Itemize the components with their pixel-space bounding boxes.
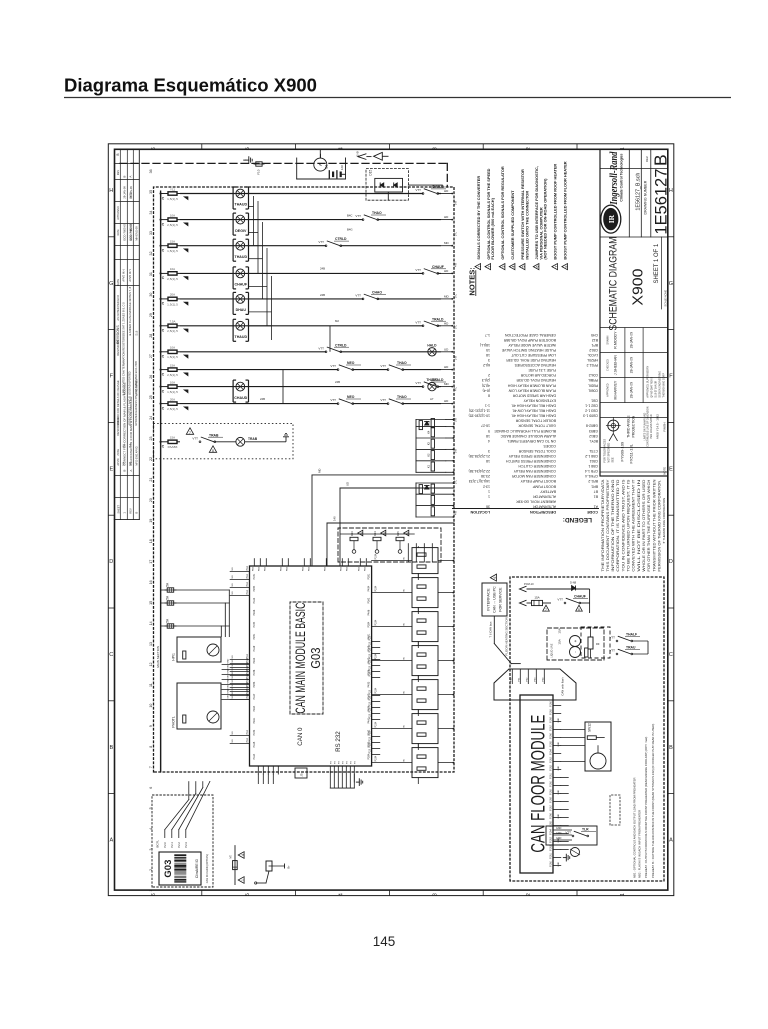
svg-text:D: D: [669, 559, 673, 565]
svg-text:36: 36: [149, 169, 153, 173]
jumper wires in resistor box: [340, 533, 414, 535]
svg-text:28: 28: [149, 334, 153, 338]
lamp TRAB in sub-box: [215, 441, 237, 443]
svg-text:P1A7: P1A7: [550, 804, 553, 810]
zone tick left: [108, 421, 114, 423]
aux feed wire near climate box: [234, 846, 236, 885]
svg-text:1-7: 1-7: [485, 333, 490, 337]
relay coil K6 resistor: [431, 507, 434, 516]
triangle note in resistor box 3: [404, 530, 409, 536]
svg-text:20A: 20A: [170, 397, 175, 401]
svg-text:DASH REL RELAY-HIGH 40.: DASH REL RELAY-HIGH 40.: [511, 404, 556, 408]
svg-text:P1A2: P1A2: [550, 844, 553, 850]
svg-text:THAO: THAO: [372, 211, 382, 215]
svg-text:DATE: DATE: [117, 229, 120, 236]
svg-text:7,5A: 7,5A: [170, 320, 176, 324]
svg-text:28-JAN-09: 28-JAN-09: [629, 332, 633, 348]
svg-text:B1: B1: [324, 164, 328, 168]
floor feed arrow 2: [520, 600, 527, 606]
svg-text:P1A0: P1A0: [550, 860, 553, 866]
svg-text:FX511-13L: FX511-13L: [628, 443, 633, 463]
svg-text:P1A7: P1A7: [550, 724, 553, 730]
svg-text:BR1: BR1: [591, 484, 598, 488]
svg-text:P2-1: P2-1: [170, 842, 174, 848]
zone tick right: [668, 236, 674, 238]
svg-text:R9: R9: [596, 642, 600, 646]
svg-text:VTT: VTT: [557, 598, 563, 602]
svg-text:NEO: NEO: [347, 361, 355, 365]
third angle projection symbol: [608, 420, 619, 431]
svg-text:VTT: VTT: [380, 364, 386, 368]
svg-text:10-1(2(30-35): 10-1(2(30-35): [469, 414, 490, 418]
indicator circle R15: [398, 550, 402, 554]
svg-text:AMBIENT ROVL GD-93R: AMBIENT ROVL GD-93R: [516, 499, 556, 503]
main power rail wire: [160, 194, 162, 773]
floor fuse F31: [532, 600, 543, 605]
svg-text:1: 1: [620, 893, 626, 896]
svg-text:COOL TOTAL SENSOR: COOL TOTAL SENSOR: [518, 449, 556, 453]
HPI1 lamp circle: [207, 644, 219, 656]
svg-text:P1A0: P1A0: [550, 780, 553, 786]
fuse on ladder2 top rung: [419, 485, 422, 494]
svg-text:P2A2: P2A2: [253, 657, 256, 664]
relay contact THAO row 8: [388, 368, 403, 370]
svg-text:K2: K2: [426, 453, 430, 457]
svg-text:INTERFACE: INTERFACE: [485, 588, 490, 611]
svg-text:CB8 1-2: CB8 1-2: [585, 454, 598, 458]
svg-text:CAN ↔ USB PC: CAN ↔ USB PC: [492, 586, 496, 613]
svg-text:CONDENSER CLUTCH: CONDENSER CLUTCH: [518, 464, 556, 468]
module bottom edge pins: [372, 754, 380, 756]
ladder2 rung K9: [416, 482, 454, 484]
svg-text:BOOSTER PUMP ROVL GB-98R: BOOSTER PUMP ROVL GB-98R: [503, 338, 556, 342]
svg-text:18: 18: [486, 353, 490, 357]
svg-text:PR11.2: PR11.2: [587, 363, 598, 367]
svg-text:REVISIONS: REVISIONS: [116, 340, 120, 355]
svg-text:P2B1: P2B1: [253, 633, 256, 640]
battery wire: [341, 173, 346, 175]
sensor box HPI1: [177, 637, 221, 662]
interface CAN bus wire: [493, 616, 495, 644]
svg-text:ON TO CAN DRIVER'S PANEL: ON TO CAN DRIVER'S PANEL: [507, 439, 556, 443]
svg-text:12: 12: [149, 663, 153, 667]
wire row 3 after fuse: [180, 245, 441, 247]
zone tick right: [668, 700, 674, 702]
warning triangle 4 near climate box: [238, 852, 244, 859]
svg-text:4: 4: [339, 893, 345, 896]
ladder2 rung K7: [416, 505, 454, 507]
svg-text:P1A9: P1A9: [550, 708, 553, 714]
relay contact CHAUF row 4: [423, 272, 438, 274]
diode on ladder2 rung: [425, 485, 429, 489]
wedge mark row 10: [184, 407, 188, 410]
svg-text:16-27: 16-27: [481, 424, 490, 428]
zone tick top: [201, 144, 203, 150]
indicator lamp DEGIV row 2: [236, 215, 245, 224]
svg-text:CTRLD: CTRLD: [335, 237, 347, 241]
floor relay contact TRAU: [616, 653, 618, 655]
svg-text:23-38: 23-38: [481, 474, 490, 478]
note 2 warning triangle: [485, 264, 491, 270]
svg-text:TO BE RETURNED UPON REQUEST. I: TO BE RETURNED UPON REQUEST. IT IS: [627, 478, 631, 571]
resistor R13: [350, 537, 358, 540]
svg-text:10: 10: [149, 704, 153, 708]
svg-text:DASH AIR SPEED MOTOR: DASH AIR SPEED MOTOR: [512, 393, 556, 397]
svg-text:SIG: SIG: [232, 583, 234, 587]
svg-text:CTRLD: CTRLD: [335, 343, 347, 347]
zone tick top: [482, 144, 484, 150]
floor triangles: [543, 605, 550, 611]
svg-text:UPDATED HARNESS PIN-OUT TABLE: UPDATED HARNESS PIN-OUT TABLE PER ECO-76…: [134, 361, 138, 426]
svg-text:ADDED NOTES 7 AND 8, LEGEND UP: ADDED NOTES 7 AND 8, LEGEND UPDATED: [127, 371, 131, 425]
svg-text:21-2(2(28-28): 21-2(2(28-28): [469, 454, 490, 458]
svg-text:P4A1: P4A1: [367, 717, 370, 724]
floor sensor dashed box: [547, 628, 604, 660]
svg-text:2: 2: [526, 893, 532, 896]
svg-text:GND: GND: [558, 766, 560, 771]
svg-text:SHEET 1 OF 1: SHEET 1 OF 1: [654, 243, 660, 284]
fuse F14 10A row 4: [166, 272, 168, 274]
svg-text:P4B3: P4B3: [367, 681, 370, 688]
warning triangle 1 near climate box: [238, 877, 244, 884]
svg-text:1,5(1),5: 1,5(1),5: [167, 302, 178, 306]
svg-text:P1A: P1A: [246, 566, 249, 571]
HPI1 resistor: [183, 651, 186, 659]
sensor feed drop 2 with fuse: [161, 602, 230, 604]
floor aux dotted box: [610, 795, 620, 825]
svg-text:P1B4: P1B4: [253, 621, 256, 628]
svg-text:CONDENSER SPEED RELAY: CONDENSER SPEED RELAY: [508, 454, 556, 458]
alternator A1 circle: [314, 158, 327, 171]
chassis ground near battery rail: [246, 159, 249, 161]
svg-text:CHAUF: CHAUF: [432, 265, 444, 269]
svg-text:BP1: BP1: [591, 343, 598, 347]
svg-text:& RELOCATED CAN TERMINATION RE: & RELOCATED CAN TERMINATION RESISTORS: [122, 335, 126, 396]
zone tick left: [108, 329, 114, 331]
svg-text:20A: 20A: [170, 293, 175, 297]
approvals divider: [624, 328, 626, 403]
svg-text:VTT: VTT: [330, 364, 336, 368]
svg-text:A: A: [129, 470, 133, 472]
wedge mark row 4: [184, 277, 188, 280]
RS232 ground: [356, 781, 359, 783]
PHOTL resistor: [183, 715, 186, 723]
svg-text:REV: REV: [128, 508, 132, 514]
svg-text:15A: 15A: [557, 639, 561, 644]
svg-text:25: 25: [149, 395, 153, 399]
svg-text:CAN MAIN MODULE BASIC: CAN MAIN MODULE BASIC: [293, 602, 308, 713]
svg-text:B4G: B4G: [347, 228, 353, 232]
svg-text:GND: GND: [558, 862, 560, 867]
svg-text:NOTES:: NOTES:: [467, 267, 476, 295]
floor T-sensor circle: [571, 848, 580, 857]
svg-text:GB93: GB93: [589, 429, 598, 433]
svg-text:AS NOTED PER ECO: AS NOTED PER ECO: [116, 295, 120, 321]
svg-text:26: 26: [149, 375, 153, 379]
svg-text:J.SHEEHAN: J.SHEEHAN: [613, 355, 617, 376]
svg-text:10A: 10A: [170, 380, 175, 384]
svg-text:G03: G03: [163, 860, 174, 878]
svg-text:GB02-8: GB02-8: [586, 424, 598, 428]
svg-text:P3B4: P3B4: [367, 753, 370, 760]
resistor R15: [396, 537, 404, 540]
svg-text:2,5(1),5: 2,5(1),5: [167, 329, 178, 333]
svg-text:FORCED AIR MOTOR: FORCED AIR MOTOR: [520, 373, 556, 377]
svg-text:WATER VALVE MODE RELAY: WATER VALVE MODE RELAY: [508, 343, 556, 347]
zone tick left: [108, 514, 114, 516]
svg-text:SIG: SIG: [227, 665, 229, 669]
wedge mark row 1: [184, 197, 188, 200]
svg-text:GND: GND: [227, 658, 229, 663]
wire row 9 horizontal run: [160, 386, 162, 388]
svg-text:P1B: P1B: [368, 749, 371, 754]
svg-text:P2B3: P2B3: [253, 681, 256, 688]
svg-text:VTT: VTT: [355, 293, 361, 297]
svg-text:VTT: VTT: [415, 268, 421, 272]
row 2 end stub: [441, 219, 452, 221]
svg-text:28-JAN-09: 28-JAN-09: [629, 357, 633, 373]
svg-text:P1B: P1B: [252, 566, 254, 571]
wire row 4 after fuse: [180, 272, 441, 274]
svg-text:P1B1: P1B1: [253, 573, 256, 580]
svg-text:5: 5: [245, 147, 251, 150]
fuse F12 10A row 2: [166, 219, 168, 221]
floor feed wire 1: [527, 588, 590, 590]
svg-text:8: 8: [578, 608, 580, 612]
svg-text:SHEET: SHEET: [116, 505, 120, 514]
svg-text:GB12: GB12: [589, 434, 598, 438]
svg-text:CHECKED: CHECKED: [606, 359, 609, 371]
svg-text:7: 7: [189, 431, 191, 435]
svg-text:P1A: P1A: [246, 654, 249, 659]
relay coil K3 resistor: [431, 439, 434, 448]
svg-text:VTT: VTT: [318, 240, 324, 244]
wire row 7 horizontal run: [160, 351, 162, 353]
svg-text:PROJECTION: PROJECTION: [631, 415, 635, 437]
svg-text:DATE: DATE: [116, 279, 120, 286]
ladder2 rung K8: [416, 493, 454, 495]
svg-text:15A: 15A: [170, 363, 175, 367]
svg-text:28-JAN-09: 28-JAN-09: [629, 382, 633, 398]
svg-text:HR20L: HR20L: [587, 358, 598, 362]
svg-text:P1A6: P1A6: [550, 812, 553, 818]
svg-text:1,5(1),5: 1,5(1),5: [167, 355, 178, 359]
svg-text:TRANSMITTED WITHOUT THE PRIOR: TRANSMITTED WITHOUT THE PRIOR WRITTEN: [652, 479, 656, 572]
svg-text:10A: 10A: [170, 267, 175, 271]
svg-text:APPROVED: APPROVED: [117, 206, 120, 220]
svg-text:FY909-109: FY909-109: [619, 441, 624, 462]
svg-text:THAO: THAO: [397, 395, 407, 399]
svg-text:CAN with flash: CAN with flash: [560, 677, 564, 696]
svg-text:FINISH: FINISH: [662, 422, 666, 431]
svg-text:CB12: CB12: [589, 348, 598, 352]
svg-text:SIG: SIG: [232, 591, 234, 595]
relay contact CHAUF row 1: [423, 192, 438, 194]
svg-text:C0BIL: C0BIL: [588, 388, 598, 392]
IR roundel logo: [601, 205, 621, 233]
svg-text:16(L3)(7.2(33: 16(L3)(7.2(33: [469, 479, 490, 483]
svg-text:P1A6: P1A6: [550, 732, 553, 738]
fuse on ladder top rung: [419, 421, 422, 430]
floor diode D-N8: [572, 586, 576, 591]
svg-text:P4A2: P4A2: [367, 657, 370, 664]
wire row 7 after fuse: [180, 351, 441, 353]
svg-text:MD: MD: [317, 469, 321, 473]
svg-text:2: 2: [487, 266, 491, 268]
svg-text:+: +: [573, 639, 578, 642]
svg-text:P4B4: P4B4: [367, 705, 370, 712]
svg-text:P2A1: P2A1: [253, 717, 256, 724]
row 5 end stub: [441, 298, 452, 300]
legend table (rotated 180): [452, 333, 599, 523]
svg-text:CUSTOMER SUPPLIED COMPONENT: CUSTOMER SUPPLIED COMPONENT: [510, 190, 515, 260]
svg-text:6: 6: [151, 893, 157, 896]
svg-text:P1A8: P1A8: [550, 716, 553, 722]
svg-text:10A: 10A: [170, 213, 175, 217]
floor sensor circle 1: [570, 636, 581, 647]
svg-text:P1B6: P1B6: [253, 669, 256, 676]
svg-text:FLOOR HEATING SECTION: FLOOR HEATING SECTION: [504, 617, 508, 655]
svg-text:SIG: SIG: [227, 695, 229, 699]
svg-text:4: 4: [488, 439, 490, 443]
svg-text:B: B: [651, 154, 671, 166]
svg-text:C0IL2: C0IL2: [589, 373, 598, 377]
svg-text:31: 31: [149, 272, 153, 276]
svg-text:P1B2: P1B2: [253, 729, 256, 736]
floor module harness chamfer: [494, 669, 576, 700]
interface converter box: [482, 583, 507, 616]
floor GND relay contact: [572, 835, 574, 837]
svg-text:THAUD: THAUD: [235, 255, 248, 259]
vertical jog x330 rows 6-7: [329, 326, 331, 352]
svg-text:CHAUD: CHAUD: [234, 396, 247, 400]
svg-text:THIRD ANGLE: THIRD ANGLE: [626, 415, 630, 438]
row 3 end stub: [441, 245, 452, 247]
svg-text:P1B: P1B: [280, 566, 282, 571]
svg-text:P4A6: P4A6: [367, 609, 370, 616]
wire row 10 horizontal run: [160, 403, 162, 405]
svg-text:6: 6: [493, 577, 497, 579]
wire row 5 after fuse: [180, 298, 441, 300]
SW12 motor circle: [590, 753, 606, 769]
svg-text:P1A1: P1A1: [550, 852, 553, 858]
svg-text:SIG: SIG: [232, 575, 234, 579]
sensor feed drop 3 with fuse: [161, 625, 230, 627]
svg-text:VTT: VTT: [415, 381, 421, 385]
CAN MAIN MODULE BASIC outline U1: [250, 566, 372, 766]
svg-text:SW12: SW12: [587, 723, 591, 732]
floor switch contact: [564, 602, 566, 604]
svg-text:A1: A1: [594, 505, 598, 509]
svg-text:THAUD: THAUD: [235, 203, 248, 207]
diode D15b: [394, 183, 398, 187]
wedge mark row 5: [184, 302, 188, 305]
svg-text:P2A6: P2A6: [253, 609, 256, 616]
svg-text:8: 8: [149, 746, 153, 748]
svg-text:B-4: B-4: [129, 443, 132, 447]
svg-text:32: 32: [149, 252, 153, 256]
svg-text:6: 6: [151, 147, 157, 150]
fuse F19 10A row 9: [166, 386, 168, 388]
svg-text:2: 2: [526, 147, 532, 150]
zone tick top: [295, 144, 297, 150]
svg-text:6(L2: 6(L2: [483, 363, 490, 367]
relay contact THAO row 10: [388, 402, 403, 404]
svg-text:YOU IN CONFIDENCE AND TRUST, A: YOU IN CONFIDENCE AND TRUST, AND IS: [621, 478, 625, 571]
svg-text:23: 23: [149, 436, 153, 440]
svg-text:P1B: P1B: [308, 566, 310, 571]
svg-text:P4B4: P4B4: [367, 585, 370, 592]
svg-text:PHOTL: PHOTL: [171, 716, 175, 727]
svg-text:ClimAIRE ID: ClimAIRE ID: [195, 859, 199, 879]
svg-text:2-B: 2-B: [355, 151, 359, 156]
svg-text:NB2 : FLASH IS IN EACH INPUT F: NB2 : FLASH IS IN EACH INPUT FROM PREHEA…: [637, 810, 641, 878]
row 6 end stub: [441, 325, 452, 327]
floor module wires to components: [561, 761, 585, 763]
svg-text:THAO: THAO: [397, 361, 407, 365]
main section dotted boundary: [154, 187, 455, 772]
svg-text:B12: B12: [592, 338, 598, 342]
title block outline: [600, 149, 668, 476]
indicator lamp THAUD row 3: [236, 241, 245, 250]
sensor box PHOTL: [177, 683, 221, 729]
svg-text:1: 1: [488, 489, 490, 493]
svg-text:RS 232: RS 232: [335, 731, 342, 752]
note 4 warning triangle: [509, 264, 515, 270]
svg-text:FOR TOLERANCES: FOR TOLERANCES: [602, 439, 606, 463]
svg-text:J5: J5: [299, 773, 303, 777]
svg-text:20: 20: [149, 498, 153, 502]
svg-text:P2-0: P2-0: [163, 842, 167, 848]
svg-text:APPROVED, SUPERVISORY: APPROVED, SUPERVISORY: [646, 365, 649, 397]
wire MD corner down to module top: [311, 475, 313, 566]
svg-text:TRAB: TRAB: [248, 437, 258, 441]
svg-text:GND: GND: [558, 742, 560, 747]
indicator lamp THAUD row 1: [236, 189, 245, 198]
svg-text:P2-3: P2-3: [184, 842, 188, 848]
svg-text:PERMISSION OF THERMO KING CORP: PERMISSION OF THERMO KING CORPORATION.: [657, 480, 661, 572]
svg-text:3: 3: [502, 266, 506, 268]
diode D15a: [380, 183, 384, 187]
wire 140 corner down to module top: [326, 523, 328, 566]
zone tick left: [108, 607, 114, 609]
vertical jog x283 rows 8-10: [282, 370, 284, 404]
svg-text:P2-2: P2-2: [177, 842, 181, 848]
wire row 1 after fuse: [180, 193, 441, 195]
svg-text:P1B: P1B: [324, 566, 326, 571]
staircase interconnect wires between lamp rows: [253, 196, 255, 246]
svg-text:WILL NOT BE DISCLOSED IN: WILL NOT BE DISCLOSED IN: [637, 478, 641, 571]
svg-text:CAN ID CARD (OPTION): CAN ID CARD (OPTION): [205, 854, 209, 883]
svg-text:15: 15: [149, 601, 153, 605]
indicator lamp CHAUF row 4: [236, 269, 245, 278]
svg-text:CHAUF: CHAUF: [235, 283, 248, 287]
svg-text:G03: G03: [308, 648, 323, 669]
svg-text:P1B4: P1B4: [374, 653, 377, 660]
indicator circle R14: [375, 550, 379, 554]
title block vertical dividers: [600, 471, 668, 473]
svg-text:P1A: P1A: [246, 738, 249, 743]
relay contact THAO row 2: [363, 218, 378, 220]
svg-text:H: H: [109, 188, 113, 194]
svg-text:WHOLE OR IN PART TO OTHERS OR: WHOLE OR IN PART TO OTHERS OR USED: [642, 479, 646, 572]
svg-text:P1A: P1A: [246, 590, 249, 595]
svg-text:GUILT TOTAL SENSOR: GUILT TOTAL SENSOR: [518, 424, 556, 428]
wire row 140 to ladder: [327, 522, 454, 524]
wedge mark row 6: [184, 329, 188, 332]
svg-text:13-2: 13-2: [483, 484, 490, 488]
svg-text:R14: R14: [373, 531, 377, 536]
